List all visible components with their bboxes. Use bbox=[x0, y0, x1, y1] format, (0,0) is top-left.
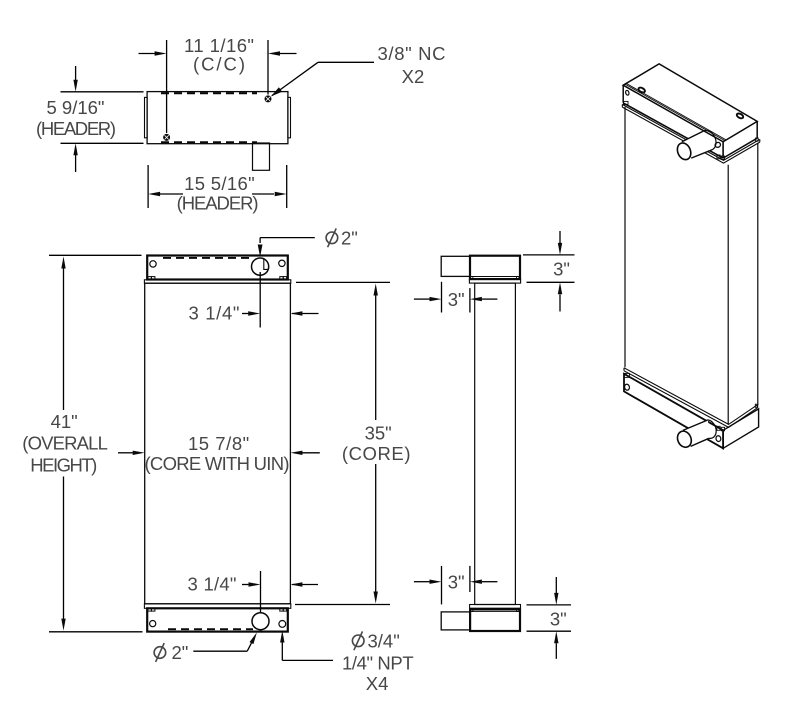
leader diameter 2 inch bottom bbox=[193, 643, 251, 651]
svg-text:1/4" NPT: 1/4" NPT bbox=[342, 653, 414, 674]
iso bottom front face hole right bbox=[715, 435, 721, 442]
iso bottom pipe bbox=[675, 420, 716, 450]
side view bottom header inner line bbox=[471, 610, 519, 612]
side view core bbox=[475, 283, 516, 604]
svg-text:2": 2" bbox=[341, 227, 358, 248]
iso top flange bbox=[622, 104, 760, 163]
front view top bolt circle left bbox=[150, 261, 156, 267]
leader diameter 2 inch top bbox=[260, 238, 315, 243]
front view top header bbox=[147, 256, 288, 280]
side view top header bbox=[470, 256, 520, 279]
front view filler neck circle bbox=[252, 258, 269, 275]
iso top flange step right bbox=[756, 138, 759, 141]
centerline filler top bbox=[259, 272, 261, 328]
leader NPT bottom bbox=[282, 642, 333, 660]
front view bottom NPT circle bbox=[279, 621, 286, 628]
dimension 3 top right bbox=[523, 231, 575, 312]
svg-text:X2: X2 bbox=[402, 66, 425, 87]
front view bottom mounting tabs left bbox=[148, 608, 152, 611]
dimension 35 CORE bbox=[295, 282, 390, 604]
dimension 11 1/16 (C/C) bbox=[139, 40, 297, 133]
front view bottom drain circle bbox=[252, 613, 269, 630]
dimension 15 7/8 CORE WITH UIN bbox=[118, 452, 320, 454]
top view left side tab bbox=[145, 97, 148, 137]
iso top header box left edge bbox=[622, 85, 624, 103]
iso front face hole top bbox=[714, 142, 721, 148]
svg-text:3/4": 3/4" bbox=[368, 630, 400, 651]
front view filler notch bbox=[264, 259, 269, 270]
iso bottom flange tab left bbox=[624, 373, 629, 377]
iso top face bolt hole 2 bbox=[736, 112, 744, 119]
iso top face seam line bbox=[626, 83, 726, 139]
dimension 15 5/16 (HEADER) bbox=[148, 165, 287, 208]
side view bottom pipe bbox=[441, 612, 470, 630]
front view bottom mounting tabs right bbox=[280, 608, 283, 611]
svg-text:X4: X4 bbox=[366, 673, 389, 694]
diameter symbol bottom left bbox=[154, 643, 166, 662]
svg-text:(CORE): (CORE) bbox=[342, 443, 411, 464]
iso core front right edge bbox=[727, 165, 729, 425]
svg-text:3": 3" bbox=[553, 259, 570, 280]
iso top header box front right edge bbox=[722, 142, 724, 158]
diameter symbol top bbox=[326, 228, 338, 247]
iso bottom flange step right bbox=[755, 404, 758, 407]
side view top header inner line bbox=[471, 276, 519, 278]
svg-text:5 9/16": 5 9/16" bbox=[47, 97, 105, 118]
svg-text:35": 35" bbox=[365, 422, 392, 443]
side view bottom header bbox=[470, 609, 520, 631]
centerline drain bottom bbox=[260, 571, 262, 613]
svg-text:(CORE WITH UIN): (CORE WITH UIN) bbox=[145, 453, 290, 474]
svg-text:3 1/4": 3 1/4" bbox=[189, 302, 240, 323]
svg-text:3": 3" bbox=[550, 609, 567, 630]
iso bottom header front face bbox=[624, 374, 723, 449]
top view hidden core line upper bbox=[161, 92, 257, 94]
iso top face bolt hole 1 bbox=[625, 87, 744, 148]
svg-text:(HEADER): (HEADER) bbox=[36, 118, 116, 139]
iso left face hole bbox=[625, 90, 629, 95]
svg-text:(OVERALL: (OVERALL bbox=[22, 433, 108, 454]
top view drain fitting bbox=[253, 143, 270, 170]
svg-text:3/8" NC: 3/8" NC bbox=[378, 43, 446, 64]
front view top flange bbox=[144, 280, 290, 283]
iso top pipe bbox=[675, 130, 716, 161]
svg-text:(HEADER): (HEADER) bbox=[177, 193, 259, 214]
top view header outline bbox=[147, 92, 288, 144]
front view top mounting tabs left bbox=[148, 277, 152, 280]
iso top flange tabs right bbox=[717, 155, 720, 159]
iso bottom flange tabs right bbox=[717, 426, 720, 430]
top view hidden core line lower bbox=[161, 141, 257, 143]
svg-text:3": 3" bbox=[448, 289, 465, 310]
dimension 41 OVERALL HEIGHT bbox=[49, 255, 143, 632]
front view bottom flange bbox=[144, 604, 290, 609]
front view top header hidden line bbox=[163, 257, 252, 259]
front view bottom header bbox=[147, 608, 288, 631]
diameter symbol bottom right bbox=[352, 631, 364, 650]
top view right side tab bbox=[288, 97, 291, 137]
svg-text:2": 2" bbox=[172, 642, 189, 663]
front view top bolt circle right bbox=[279, 260, 285, 266]
dimension 3 top left bbox=[414, 282, 498, 313]
svg-text:41": 41" bbox=[51, 411, 78, 432]
svg-text:15 7/8": 15 7/8" bbox=[188, 433, 249, 454]
dimension 5 9/16 (HEADER) bbox=[61, 66, 144, 172]
iso bottom flange bbox=[624, 368, 757, 428]
front view bottom header hidden line bbox=[168, 628, 253, 630]
svg-text:3 1/4": 3 1/4" bbox=[188, 574, 237, 595]
svg-text:15 5/16": 15 5/16" bbox=[184, 173, 255, 194]
side view bottom flange bbox=[470, 605, 521, 609]
iso top flange tab left bbox=[623, 101, 628, 104]
iso top header box right back edge bbox=[756, 121, 758, 138]
iso top header box bottom front edge bbox=[623, 103, 723, 158]
dimension 3 bottom right bbox=[527, 577, 572, 659]
svg-text:3": 3" bbox=[448, 572, 465, 593]
iso core back right edge bbox=[757, 143, 759, 405]
iso top header box bottom right edge bbox=[723, 138, 757, 158]
front view bottom bolt circle left bbox=[150, 621, 156, 627]
iso core left edge bbox=[624, 107, 626, 367]
leader 3/8 NC X2 bbox=[272, 62, 374, 95]
iso bottom header right face bbox=[723, 409, 759, 448]
front view top mounting tabs right bbox=[280, 277, 283, 280]
front view core bbox=[145, 283, 291, 604]
iso bottom front face hole left bbox=[624, 384, 630, 391]
side view top flange bbox=[469, 279, 520, 283]
top view bolt hole left bbox=[164, 134, 170, 140]
dimension 3 bottom left bbox=[414, 566, 498, 605]
dimension 3 1/4 bottom bbox=[242, 584, 318, 586]
svg-text:HEIGHT): HEIGHT) bbox=[30, 455, 97, 476]
side view top pipe bbox=[441, 256, 470, 276]
top view bolt hole right bbox=[265, 96, 271, 102]
iso top header box top face bbox=[623, 64, 757, 142]
dimension 3 1/4 top bbox=[242, 313, 319, 315]
